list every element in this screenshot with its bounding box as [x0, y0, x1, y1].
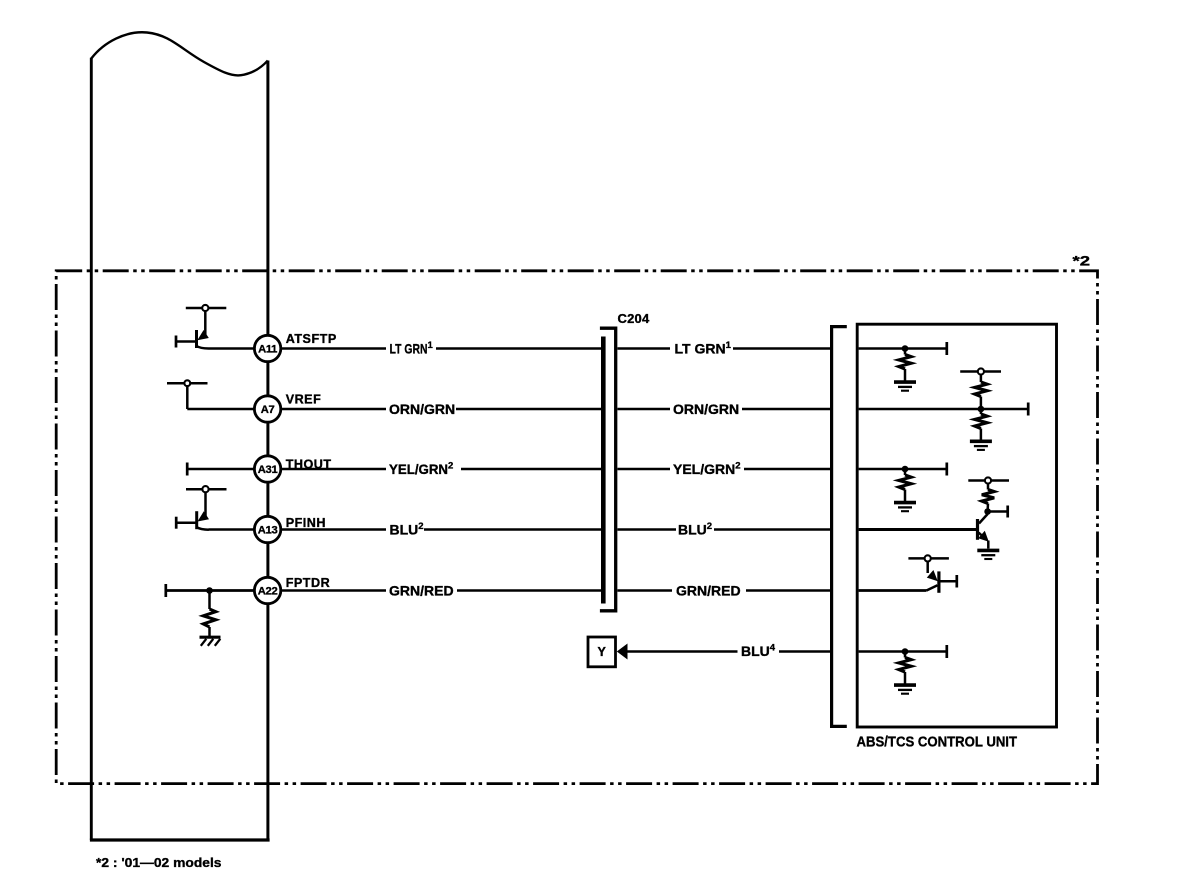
- ground: [894, 685, 916, 694]
- resistor lead to ground: [208, 627, 211, 637]
- resistor (ABS input pull-down row 3): [899, 475, 911, 490]
- wire YEL/GRN to ABS connector: [744, 468, 833, 471]
- wire Q1 collector to pin A11: [209, 347, 255, 350]
- ground: [977, 550, 999, 559]
- wire LT GRN to connector C204: [436, 347, 602, 350]
- wire YEL/GRN from pin (left segment): [281, 468, 386, 471]
- resistor lead: [980, 375, 983, 382]
- wire end tick: [945, 645, 948, 658]
- wire THOUT to pin A31: [188, 468, 255, 471]
- pin A11: [254, 335, 280, 361]
- transistor base lead: [177, 340, 197, 343]
- FPTDR lead end tick: [164, 584, 167, 597]
- svg-text:A13: A13: [258, 525, 278, 537]
- wire BLU4 to ABS connector: [779, 650, 833, 653]
- svg-text:LT GRN1: LT GRN1: [675, 340, 732, 357]
- wire ORN/GRN from C204 (right segment): [618, 408, 671, 411]
- VREF supply rail line: [167, 382, 208, 385]
- resistor lead down: [208, 591, 211, 610]
- wire LT GRN from C204 (right segment): [618, 347, 671, 350]
- svg-text:PFINH: PFINH: [286, 516, 326, 530]
- pin A7: [254, 396, 280, 422]
- resistor (ABS pull-up): [975, 382, 987, 397]
- svg-text:BLU2: BLU2: [390, 521, 424, 538]
- resistor (ABS input pull-down row 1): [899, 355, 911, 370]
- supply rail line: [186, 488, 227, 491]
- wire BLU to connector C204: [424, 528, 602, 531]
- svg-text:A31: A31: [258, 464, 278, 476]
- wire BLU from pin (left segment): [281, 528, 386, 531]
- svg-text:GRN/RED: GRN/RED: [389, 583, 454, 599]
- pin A31: [254, 456, 280, 482]
- resistor lead: [904, 349, 907, 355]
- supply rail line: [186, 307, 227, 310]
- supply node (open circle): [202, 305, 208, 311]
- resistor lead to ground: [904, 369, 907, 381]
- ground (slash style): [200, 637, 221, 646]
- svg-text:*2 : '01—02 models: *2 : '01—02 models: [96, 855, 222, 870]
- node junction: [902, 466, 909, 473]
- supply rail line: [968, 479, 1009, 482]
- supply rail line: [908, 557, 949, 560]
- svg-text:C204: C204: [618, 311, 650, 326]
- wire BLU inside ABS unit (base lead): [859, 528, 978, 531]
- svg-text:A22: A22: [258, 586, 278, 598]
- supply node (open circle): [985, 477, 991, 483]
- wire GRN/RED from C204 (right segment): [618, 589, 673, 592]
- svg-text:LT GRN1: LT GRN1: [390, 340, 434, 357]
- wire BLU4 inside ABS unit: [859, 650, 947, 653]
- wire ORN/GRN to ABS connector: [742, 408, 833, 411]
- wire LT GRN to ABS connector: [733, 347, 833, 350]
- connector C204 female bar: [601, 337, 606, 604]
- wire ORN/GRN inside ABS unit: [859, 408, 1027, 411]
- wire VREF to pin A7: [187, 408, 254, 411]
- ground: [970, 441, 992, 450]
- wire LT GRN inside ABS unit: [859, 347, 947, 350]
- ground: [894, 503, 916, 512]
- resistor (ABS input pull-down row 6): [899, 658, 911, 673]
- transistor Q3 base bar: [976, 519, 979, 540]
- base lead end tick: [175, 517, 178, 529]
- svg-text:YEL/GRN2: YEL/GRN2: [673, 461, 741, 478]
- transistor emitter arrow (PNP): [198, 511, 210, 521]
- wire GRN/RED to connector C204: [457, 589, 602, 592]
- wire end tick: [1027, 403, 1030, 416]
- supply node (open circle): [978, 368, 984, 374]
- wire BLU from C204 (right segment): [618, 528, 677, 531]
- wire BLU to ABS connector: [714, 528, 833, 531]
- wire YEL/GRN from C204 (right segment): [618, 468, 671, 471]
- ABS connector bracket: [832, 327, 847, 727]
- wire FPTDR to pin A22: [167, 589, 255, 592]
- base lead diagonal: [927, 585, 938, 590]
- resistor lead: [980, 397, 983, 410]
- wire YEL/GRN to connector C204: [461, 468, 602, 471]
- transistor Q3 emitter lead with arrow: [979, 533, 985, 538]
- wire Q2 collector to pin A13: [209, 528, 255, 531]
- wire BLU4 from ABS to Y arrow: [627, 650, 738, 653]
- svg-text:ABS/TCS CONTROL UNIT: ABS/TCS CONTROL UNIT: [857, 735, 1018, 751]
- node junction (collector node): [984, 508, 991, 515]
- transistor emitter arrow (PNP): [197, 330, 209, 340]
- resistor lead: [904, 652, 907, 658]
- wire YEL/GRN inside ABS unit: [859, 468, 947, 471]
- connector terminal Y box: [588, 637, 616, 667]
- resistor R1 (ECM pull-down): [203, 609, 215, 627]
- svg-text:ATSFTP: ATSFTP: [286, 332, 337, 346]
- resistor lead to ground: [904, 672, 907, 684]
- svg-text:BLU2: BLU2: [678, 521, 712, 538]
- transistor Q1 (ECM driver for ATSFTP): [176, 305, 226, 349]
- transistor collector lead: [197, 346, 209, 349]
- wire LT GRN from pin (left segment): [281, 347, 386, 350]
- wire GRN/RED inside ABS unit (base lead): [859, 589, 927, 592]
- resistor lead: [986, 504, 989, 512]
- wire GRN/RED to ABS connector: [746, 589, 833, 592]
- resistor lead to ground: [980, 429, 983, 441]
- transistor emitter lead: [204, 492, 207, 516]
- resistor lead: [904, 469, 907, 475]
- pin A22: [254, 577, 280, 603]
- wire end tick: [945, 342, 948, 355]
- svg-text:GRN/RED: GRN/RED: [676, 583, 741, 599]
- ground: [894, 382, 916, 391]
- transistor Q4 base bar: [937, 571, 940, 592]
- svg-text:FPTDR: FPTDR: [286, 576, 330, 590]
- wire end tick: [1006, 506, 1009, 518]
- supply rail line: [960, 370, 1001, 373]
- svg-text:Y: Y: [598, 645, 607, 659]
- node junction: [902, 345, 909, 352]
- wire ORN/GRN from pin (left segment): [281, 408, 386, 411]
- transistor collector lead: [197, 527, 209, 530]
- wire end tick: [945, 463, 948, 476]
- wire VREF vertical drop: [186, 386, 189, 409]
- transistor base bar: [195, 330, 198, 348]
- resistor (collector pull-up): [982, 490, 994, 504]
- node junction: [902, 648, 909, 655]
- resistor (ABS pull-down): [975, 414, 987, 429]
- svg-text:ORN/GRN: ORN/GRN: [389, 401, 455, 417]
- ECM pin bus (right edge vertical line): [266, 61, 269, 841]
- wire ORN/GRN to connector C204: [456, 408, 602, 411]
- ECM module wavy break top edge: [91, 32, 267, 75]
- resistor lead: [980, 409, 983, 414]
- wire collector node output: [988, 510, 1007, 513]
- svg-text:YEL/GRN2: YEL/GRN2: [389, 461, 453, 478]
- supply node (open circle): [202, 486, 208, 492]
- ABS/TCS control unit box: [857, 324, 1056, 727]
- svg-text:ORN/GRN: ORN/GRN: [673, 401, 739, 417]
- resistor lead: [987, 484, 990, 490]
- base lead end tick: [175, 336, 178, 348]
- svg-text:BLU4: BLU4: [741, 643, 776, 660]
- svg-text:*2: *2: [1073, 254, 1091, 269]
- transistor Q4 emitter arrow: [927, 570, 938, 581]
- supply node (open circle): [925, 555, 931, 561]
- ECM module outline left edge: [90, 58, 93, 840]
- transistor emitter lead: [204, 311, 207, 335]
- node junction: [978, 406, 985, 413]
- wire end tick: [955, 575, 958, 588]
- ECM module outline bottom edge: [90, 838, 270, 841]
- svg-text:A11: A11: [258, 344, 277, 356]
- transistor Q2 (ECM driver for PFINH): [176, 486, 226, 530]
- THOUT lead end tick: [186, 463, 189, 476]
- connector C204 male bracket: [600, 328, 616, 611]
- VREF supply node (open circle): [184, 380, 190, 386]
- dash-dot option border *2: [56, 271, 1097, 784]
- resistor lead to ground: [904, 490, 907, 502]
- transistor base bar: [195, 511, 198, 529]
- node junction at FPTDR: [206, 587, 213, 594]
- transistor Q4 (PNP) emitter lead: [926, 562, 929, 574]
- transistor base lead: [177, 521, 197, 524]
- wire GRN/RED from pin (left segment): [281, 589, 386, 592]
- pin A13: [254, 516, 280, 542]
- transistor Q4 collector lead: [940, 580, 956, 583]
- svg-text:A7: A7: [261, 404, 275, 416]
- transistor Q3 (NPN) collector lead: [979, 514, 988, 524]
- svg-text:VREF: VREF: [286, 392, 322, 406]
- arrowhead to Y: [617, 644, 628, 660]
